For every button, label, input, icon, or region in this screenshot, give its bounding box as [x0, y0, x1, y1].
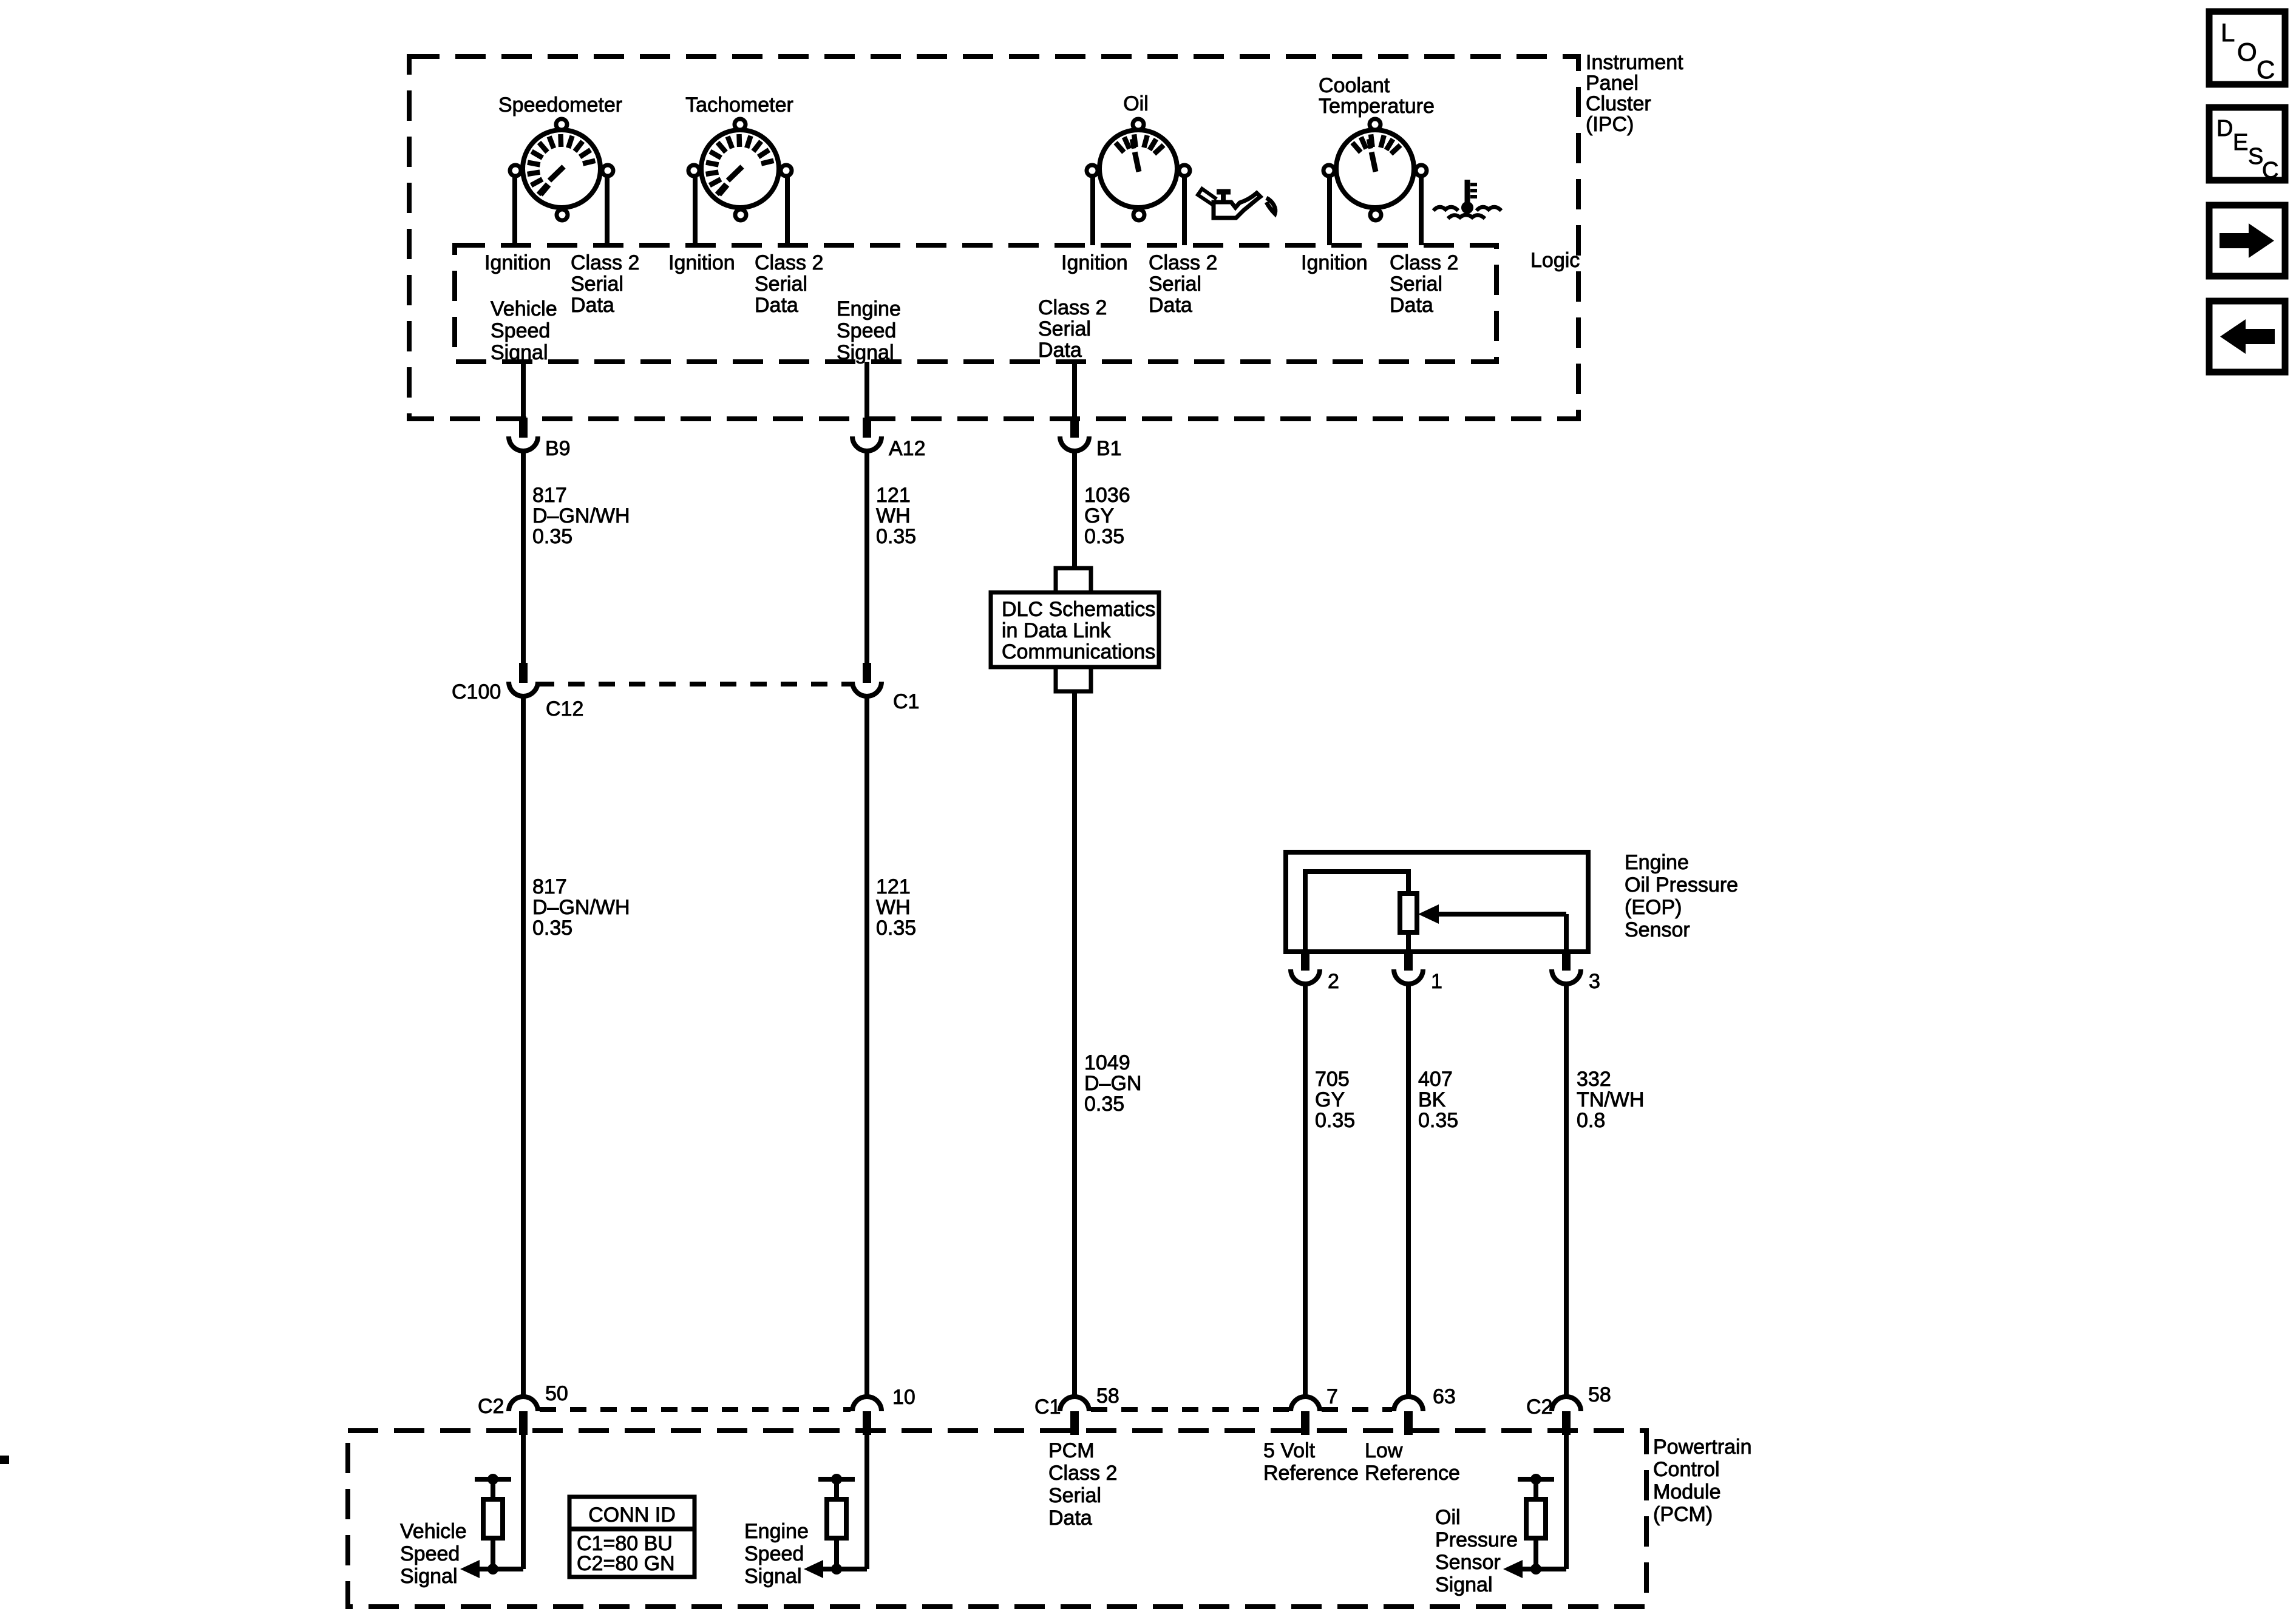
wire 332 segment — [1564, 984, 1569, 1397]
wire class 2 serial data inside IPC — [1072, 362, 1077, 418]
svg-text:Class 2: Class 2 — [1038, 296, 1107, 319]
svg-text:Powertrain: Powertrain — [1653, 1436, 1752, 1459]
svg-text:Signal: Signal — [837, 341, 894, 364]
svg-text:(EOP): (EOP) — [1625, 896, 1682, 919]
speedometer gauge — [510, 119, 613, 220]
oil pressure sensor signal input driver — [1503, 1433, 1566, 1578]
svg-text:Oil Pressure: Oil Pressure — [1625, 873, 1738, 897]
EOP internal wire potentiometer bottom to pin 1 — [1406, 932, 1411, 952]
svg-text:C1: C1 — [893, 690, 919, 713]
svg-text:58: 58 — [1588, 1383, 1611, 1406]
svg-text:0.35: 0.35 — [532, 917, 572, 940]
wire oil gauge right pin — [1182, 177, 1187, 245]
svg-text:Coolant: Coolant — [1319, 74, 1390, 97]
wire oil gauge left pin — [1090, 177, 1095, 245]
coolant temperature gauge — [1323, 119, 1427, 220]
svg-text:Data: Data — [1038, 339, 1082, 362]
svg-text:D: D — [2216, 116, 2233, 141]
connector C1 (IPC harness) — [852, 663, 881, 696]
potentiometer wiper arrow — [1418, 904, 1566, 924]
connector C1 pin 58 at PCM — [1060, 1397, 1089, 1435]
svg-text:Data: Data — [1149, 294, 1192, 317]
svg-text:0.35: 0.35 — [1315, 1109, 1355, 1132]
svg-text:GY: GY — [1084, 504, 1114, 527]
page edge mark — [0, 1456, 9, 1464]
DESC icon box — [2209, 107, 2285, 183]
potentiometer resistor — [1400, 893, 1417, 932]
svg-text:407: 407 — [1418, 1068, 1453, 1091]
back arrow icon box — [2209, 301, 2285, 372]
svg-text:Vehicle: Vehicle — [400, 1520, 467, 1543]
svg-text:Data: Data — [571, 294, 614, 317]
svg-text:Class 2: Class 2 — [755, 251, 823, 274]
svg-text:Serial: Serial — [1390, 273, 1442, 296]
svg-text:C2: C2 — [1526, 1395, 1552, 1419]
svg-text:DLC Schematics: DLC Schematics — [1002, 598, 1155, 621]
svg-text:C: C — [2257, 55, 2275, 84]
svg-text:Oil: Oil — [1123, 92, 1149, 115]
svg-text:Vehicle: Vehicle — [491, 297, 557, 320]
connector A12 — [852, 418, 881, 451]
forward arrow icon box — [2209, 205, 2285, 276]
svg-text:WH: WH — [876, 504, 911, 527]
svg-text:Speed: Speed — [491, 319, 550, 342]
svg-text:817: 817 — [532, 484, 567, 507]
engine speed signal output driver — [804, 1433, 867, 1578]
dashed line 7 to 63 — [1322, 1407, 1392, 1412]
svg-text:Cluster: Cluster — [1586, 92, 1651, 115]
svg-text:Tachometer: Tachometer — [685, 93, 793, 117]
svg-text:Reference: Reference — [1365, 1462, 1460, 1485]
svg-text:332: 332 — [1577, 1068, 1611, 1091]
wire tachometer left pin — [693, 177, 698, 245]
connector pin 63 at PCM — [1394, 1397, 1423, 1435]
svg-text:Speed: Speed — [744, 1542, 804, 1565]
svg-text:10: 10 — [892, 1386, 915, 1409]
svg-text:Control: Control — [1653, 1458, 1720, 1481]
connector C2 pin 58 at PCM — [1552, 1397, 1581, 1435]
svg-text:Class 2: Class 2 — [571, 251, 639, 274]
svg-text:Data: Data — [1390, 294, 1433, 317]
wire speedometer right pin — [605, 177, 610, 245]
DLC Schematics box — [991, 592, 1159, 667]
wire vehicle speed signal inside IPC — [521, 362, 526, 418]
svg-text:817: 817 — [532, 875, 567, 898]
svg-text:Signal: Signal — [1435, 1573, 1493, 1596]
vehicle speed signal output driver — [460, 1433, 523, 1578]
svg-text:Class 2: Class 2 — [1149, 251, 1217, 274]
svg-text:Panel: Panel — [1586, 72, 1639, 95]
svg-text:Speed: Speed — [837, 319, 896, 342]
svg-text:Communications: Communications — [1002, 640, 1155, 663]
wire engine speed signal inside IPC — [864, 362, 869, 418]
CONN ID table — [569, 1497, 695, 1577]
wire 407 segment — [1406, 984, 1411, 1397]
wire 1049 segment — [1072, 691, 1077, 1397]
svg-text:0.35: 0.35 — [876, 917, 916, 940]
svg-text:0.35: 0.35 — [876, 525, 916, 548]
svg-text:Signal: Signal — [400, 1565, 458, 1588]
svg-text:TN/WH: TN/WH — [1577, 1088, 1644, 1111]
wire 817 lower segment — [521, 695, 526, 1397]
wire tachometer right pin — [785, 177, 790, 245]
Instrument Panel Cluster (IPC) dashed box — [409, 56, 1578, 419]
wire coolant gauge right pin — [1419, 177, 1424, 245]
svg-text:Signal: Signal — [491, 341, 548, 364]
svg-text:0.35: 0.35 — [532, 525, 572, 548]
connector C2 pin 50 at PCM — [509, 1397, 538, 1435]
svg-text:Class 2: Class 2 — [1390, 251, 1458, 274]
connector C100 at C12 — [509, 663, 538, 696]
svg-text:Ignition: Ignition — [1301, 251, 1368, 274]
connector EOP pin 3 — [1552, 951, 1581, 984]
DLC connector bracket top — [1056, 568, 1091, 592]
svg-text:GY: GY — [1315, 1088, 1345, 1111]
svg-text:Serial: Serial — [1149, 273, 1201, 296]
svg-text:D–GN/WH: D–GN/WH — [532, 896, 630, 919]
wire coolant gauge left pin — [1327, 177, 1332, 245]
svg-text:(PCM): (PCM) — [1653, 1503, 1713, 1526]
svg-text:Ignition: Ignition — [668, 251, 735, 274]
svg-text:Engine: Engine — [837, 297, 901, 320]
svg-text:7: 7 — [1326, 1385, 1338, 1408]
connector B1 — [1060, 418, 1089, 451]
wire 1036 segment — [1072, 451, 1077, 568]
svg-text:Module: Module — [1653, 1480, 1721, 1503]
DLC connector bracket bottom — [1056, 667, 1091, 691]
svg-text:Class 2: Class 2 — [1048, 1462, 1117, 1485]
svg-text:CONN ID: CONN ID — [588, 1503, 676, 1527]
Powertrain Control Module (PCM) dashed box — [348, 1431, 1646, 1607]
svg-text:Engine: Engine — [744, 1520, 809, 1543]
wire speedometer left pin — [512, 177, 517, 245]
svg-text:1: 1 — [1431, 970, 1442, 993]
oil can icon — [1198, 189, 1275, 218]
svg-text:63: 63 — [1433, 1385, 1456, 1408]
coolant temperature icon — [1433, 180, 1501, 219]
Logic dashed box — [455, 245, 1496, 362]
svg-text:0.35: 0.35 — [1418, 1109, 1458, 1132]
svg-text:58: 58 — [1096, 1385, 1119, 1408]
svg-text:0.35: 0.35 — [1084, 1093, 1124, 1116]
dashed wire C100 to C1 — [538, 682, 852, 686]
svg-text:A12: A12 — [889, 437, 926, 460]
svg-text:Data: Data — [1048, 1507, 1092, 1530]
svg-text:121: 121 — [876, 484, 911, 507]
svg-text:Low: Low — [1365, 1439, 1403, 1462]
svg-text:C1: C1 — [1034, 1395, 1061, 1419]
svg-text:2: 2 — [1328, 970, 1339, 993]
svg-text:C: C — [2262, 158, 2278, 183]
svg-text:(IPC): (IPC) — [1586, 113, 1634, 136]
svg-text:Oil: Oil — [1435, 1506, 1461, 1529]
svg-text:50: 50 — [545, 1382, 568, 1405]
connector EOP pin 2 — [1291, 951, 1320, 984]
svg-text:Sensor: Sensor — [1435, 1551, 1501, 1574]
svg-text:E: E — [2233, 130, 2248, 155]
connector EOP pin 1 — [1394, 951, 1423, 984]
wire 121 upper segment — [864, 451, 869, 663]
svg-text:Logic: Logic — [1530, 249, 1580, 272]
svg-text:705: 705 — [1315, 1068, 1350, 1091]
connector pin 10 at PCM — [852, 1397, 881, 1435]
svg-text:D–GN: D–GN — [1084, 1072, 1141, 1095]
svg-text:in Data Link: in Data Link — [1002, 619, 1112, 642]
svg-text:C2=80 GN: C2=80 GN — [577, 1552, 675, 1575]
svg-text:Engine: Engine — [1625, 851, 1689, 874]
svg-text:0.35: 0.35 — [1084, 525, 1124, 548]
oil gauge — [1087, 119, 1190, 220]
tachometer gauge — [688, 119, 792, 220]
svg-text:1036: 1036 — [1084, 484, 1130, 507]
svg-text:3: 3 — [1589, 970, 1600, 993]
svg-text:S: S — [2248, 144, 2263, 169]
svg-text:5 Volt: 5 Volt — [1263, 1439, 1316, 1462]
wire 705 segment — [1303, 984, 1308, 1397]
svg-text:C12: C12 — [546, 697, 583, 720]
LOC icon box — [2209, 12, 2285, 84]
svg-text:Ignition: Ignition — [1061, 251, 1128, 274]
svg-text:0.8: 0.8 — [1577, 1109, 1605, 1132]
wire 121 lower segment — [864, 695, 869, 1397]
svg-text:B9: B9 — [545, 437, 571, 460]
svg-text:B1: B1 — [1096, 437, 1122, 460]
svg-text:Serial: Serial — [1038, 317, 1091, 341]
connector B9 — [509, 418, 538, 451]
svg-text:Temperature: Temperature — [1319, 95, 1435, 118]
svg-text:D–GN/WH: D–GN/WH — [532, 504, 630, 527]
svg-text:C2: C2 — [478, 1395, 504, 1418]
svg-text:Serial: Serial — [571, 273, 623, 296]
svg-text:BK: BK — [1418, 1088, 1446, 1111]
EOP internal wire pin 3 — [1564, 914, 1569, 952]
dashed line C2-50 to 10 — [540, 1407, 851, 1412]
svg-text:Serial: Serial — [1048, 1484, 1101, 1507]
wire 817 upper segment — [521, 451, 526, 663]
Engine Oil Pressure (EOP) Sensor box — [1286, 852, 1588, 952]
svg-text:C100: C100 — [452, 680, 501, 703]
svg-text:Sensor: Sensor — [1625, 918, 1690, 941]
svg-text:PCM: PCM — [1048, 1439, 1095, 1462]
svg-text:Instrument: Instrument — [1586, 51, 1683, 74]
svg-text:L: L — [2221, 18, 2235, 47]
svg-text:Ignition: Ignition — [484, 251, 551, 274]
svg-text:Serial: Serial — [755, 273, 807, 296]
svg-text:Reference: Reference — [1263, 1462, 1359, 1485]
svg-text:O: O — [2237, 38, 2257, 66]
svg-text:Speed: Speed — [400, 1542, 460, 1565]
svg-text:121: 121 — [876, 875, 911, 898]
svg-text:Pressure: Pressure — [1435, 1528, 1518, 1551]
EOP internal wire pin 2 to potentiometer top — [1305, 872, 1408, 952]
svg-text:WH: WH — [876, 896, 911, 919]
connector pin 7 at PCM — [1291, 1397, 1320, 1435]
svg-text:1049: 1049 — [1084, 1051, 1130, 1074]
svg-text:Data: Data — [755, 294, 798, 317]
svg-text:Signal: Signal — [744, 1565, 802, 1588]
svg-text:Speedometer: Speedometer — [498, 93, 622, 117]
dashed line C1-58 to 7 — [1091, 1407, 1289, 1412]
